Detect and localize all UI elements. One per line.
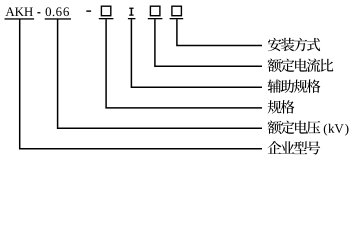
box symbol 2 (额定电流比 placeholder) — [150, 6, 160, 16]
underline under I — [128, 18, 135, 19]
label 安装方式 — [268, 38, 320, 52]
wire from symbol down and right to 企业型号 — [20, 19, 262, 149]
box symbol 1 (规格 placeholder) — [101, 6, 110, 16]
label 额定电压(kV) — [268, 121, 349, 136]
text 0.66 — [46, 7, 69, 16]
label 规格 — [268, 100, 295, 114]
dash before first box — [86, 10, 91, 11]
label 额定电流比 — [268, 59, 334, 73]
underline under box 2 — [148, 18, 163, 19]
underline under 0.66 — [45, 18, 71, 19]
text AKH — [5, 7, 32, 16]
underline under AKH — [5, 18, 35, 19]
wire from symbol down and right to 额定电压(kV) — [58, 19, 262, 128]
box symbol 3 (安装方式 placeholder) — [172, 6, 182, 16]
underline under box 3 — [170, 18, 184, 19]
underline under box 1 — [99, 18, 114, 19]
hyphen between AKH and 0.66 — [37, 12, 40, 13]
wire from symbol down and right to 规格 — [106, 19, 262, 108]
wire from symbol down and right to 安装方式 — [177, 19, 262, 45]
wire from symbol down and right to 额定电流比 — [155, 19, 262, 66]
wire from symbol down and right to 辅助规格 — [131, 19, 262, 87]
text I (辅助规格 placeholder) — [129, 8, 133, 16]
label 企业型号 — [268, 141, 321, 155]
label 辅助规格 — [268, 79, 321, 93]
